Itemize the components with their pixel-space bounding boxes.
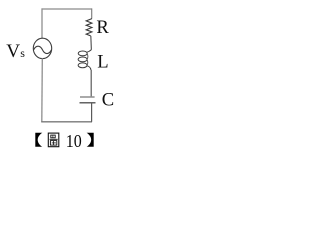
capacitor C top plate xyxy=(80,96,95,98)
wire between L and C xyxy=(90,70,92,96)
wire left lower xyxy=(41,58,44,121)
caption bracket left (lenticular) xyxy=(35,133,42,147)
inductor L exit curve xyxy=(87,66,91,70)
sine wave inside source xyxy=(34,46,52,53)
svg-text:L: L xyxy=(97,51,108,72)
inductor L entry curve xyxy=(87,50,91,53)
svg-text:s: s xyxy=(20,46,25,60)
wire between R and L xyxy=(90,36,93,50)
wire below C xyxy=(91,103,93,121)
resistor R zigzag xyxy=(86,19,92,36)
svg-text:10: 10 xyxy=(66,131,82,151)
inductor L link 2-3 xyxy=(86,60,89,65)
inductor L loop 1 xyxy=(78,51,87,56)
inductor L loop 2 xyxy=(78,57,87,62)
voltage source VS circle xyxy=(33,38,51,58)
wire right upper xyxy=(91,8,93,18)
inductor L loop 3 xyxy=(78,63,87,68)
wire top horizontal xyxy=(42,8,93,10)
caption character tu (figure) xyxy=(48,133,59,147)
svg-text:C: C xyxy=(102,90,114,111)
wire left upper xyxy=(41,8,43,38)
svg-text:V: V xyxy=(6,41,20,62)
capacitor C bottom plate xyxy=(80,102,96,104)
inductor L link 1-2 xyxy=(86,54,89,59)
wire bottom horizontal xyxy=(41,121,92,123)
caption bracket right (lenticular) xyxy=(87,133,94,147)
svg-text:R: R xyxy=(96,17,109,38)
